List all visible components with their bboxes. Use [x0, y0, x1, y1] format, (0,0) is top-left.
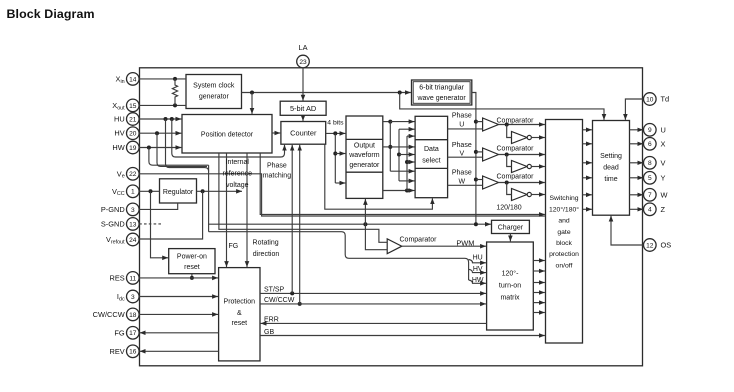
svg-text:120°-: 120°- [502, 269, 519, 277]
wire regulator internal reference voltage output [197, 190, 243, 192]
svg-text:reset: reset [184, 264, 200, 271]
node comparator W output [505, 181, 509, 185]
svg-text:V: V [661, 158, 666, 167]
wire power-on reset to RES line [191, 274, 193, 278]
block U11 setting dead time [593, 121, 630, 216]
svg-text:9: 9 [648, 127, 652, 134]
svg-text:Setting: Setting [600, 153, 622, 160]
svg-text:18: 18 [129, 312, 137, 319]
wire hall HV elbow down [157, 133, 207, 166]
pin 5 Y [644, 172, 666, 185]
wire RES to protection [139, 277, 218, 279]
wire Vrefout to regulator output [139, 191, 202, 239]
wire ERR matrix to protection [261, 322, 487, 324]
node power-on reset junction [190, 276, 194, 280]
node carrier meets charger line [474, 222, 478, 226]
svg-text:turn-on: turn-on [499, 282, 521, 289]
wire P-GND to regulator [139, 203, 178, 209]
wire switching to setting row U [583, 129, 592, 131]
wire tap up to owg bottom [364, 199, 366, 224]
pin 21 HU [114, 113, 139, 126]
wire HU to position detector [139, 118, 181, 120]
node VCC junction [149, 189, 153, 193]
wire owg out2 stub [383, 146, 391, 148]
svg-text:Td: Td [661, 95, 670, 104]
wire counter to data select bottom [325, 144, 433, 209]
wire HU second tap to counter [172, 119, 285, 157]
wire VCC to power-on reset [151, 191, 169, 257]
pin 15 Xout [112, 99, 139, 112]
inverter A2 phase U [512, 132, 532, 144]
wire setting to pin X [630, 143, 644, 145]
svg-text:Counter: Counter [290, 128, 317, 137]
block U14 protection and reset [219, 268, 260, 361]
wire position detector phase to 120/180 bus [260, 153, 545, 214]
node carrier tap V [474, 150, 478, 154]
wire inverter W output to switching [531, 194, 545, 196]
wire switching to setting row V [583, 162, 592, 164]
svg-text:PWM: PWM [456, 238, 474, 247]
wire position detector to counter [272, 132, 280, 134]
wire GB protection to switching [260, 335, 545, 337]
svg-text:15: 15 [129, 103, 137, 110]
svg-text:HV: HV [473, 266, 483, 273]
svg-text:System clock: System clock [193, 82, 235, 89]
wire data select input row 4 [390, 146, 414, 148]
node regulator output [201, 189, 205, 193]
node owg fan 3 [405, 189, 409, 193]
wire carrier to comparator W [476, 179, 483, 181]
label phase matching [263, 162, 292, 179]
svg-text:X: X [661, 139, 666, 148]
wire switching to setting row W [583, 194, 592, 196]
pin 3 P-GND [101, 203, 139, 216]
node comparator V output [505, 153, 509, 157]
svg-text:6: 6 [648, 141, 652, 148]
svg-text:4 bits: 4 bits [327, 119, 344, 126]
svg-text:protection: protection [549, 251, 579, 258]
node owg mid tap [333, 152, 337, 156]
block U6 output waveform generator (3 stacked sections) [346, 116, 383, 198]
block U12 regulator [160, 179, 197, 203]
svg-text:HW: HW [112, 143, 124, 152]
wire carrier to comparator V [476, 151, 483, 153]
wire data select input row 5 [399, 154, 415, 156]
svg-text:1: 1 [131, 189, 135, 196]
svg-text:U: U [459, 122, 464, 129]
pin 12 OS [644, 239, 672, 252]
svg-text:8: 8 [648, 160, 652, 167]
wire hall bus B to matrix [209, 232, 469, 280]
svg-text:Power-on: Power-on [177, 253, 207, 260]
svg-text:time: time [604, 176, 617, 183]
node clock to triangular generator [398, 91, 402, 95]
pin 14 Xin [116, 73, 140, 86]
wire matrix to switching row 5 [533, 302, 545, 304]
node counter output [333, 131, 337, 135]
wire LA to 5-bit AD [302, 68, 304, 101]
svg-text:on/off: on/off [556, 262, 573, 269]
svg-text:select: select [422, 157, 440, 164]
svg-text:Output: Output [354, 143, 375, 150]
svg-text:Phase: Phase [452, 170, 472, 177]
svg-text:Phase: Phase [267, 162, 287, 169]
svg-text:Y: Y [661, 173, 666, 182]
svg-text:V: V [459, 150, 464, 157]
pin 13 S-GND [101, 218, 139, 231]
wire CW/CCW pin to protection [139, 313, 218, 315]
wire CW/CCW up to counter [299, 145, 301, 304]
block U13 power-on reset [169, 249, 215, 274]
svg-text:7: 7 [648, 192, 652, 199]
inverter A6 phase W [512, 189, 532, 201]
svg-text:Charger: Charger [498, 225, 524, 232]
svg-text:HW: HW [472, 277, 484, 284]
wire clock to setting dead time [400, 93, 604, 120]
wire hall HU elbow down [166, 119, 209, 171]
svg-text:20: 20 [129, 131, 137, 138]
wire HV to position detector [139, 132, 181, 134]
wire data select input row 7 [390, 170, 414, 172]
svg-text:HU: HU [473, 255, 483, 262]
wire owg out1 stub [383, 121, 391, 123]
pin 6 X [644, 138, 666, 151]
wire owg fan vertical 3 [406, 136, 408, 190]
svg-text:CW/CCW: CW/CCW [93, 310, 125, 319]
pin 17 FG [114, 327, 139, 340]
pin 23 LA (top) [297, 43, 310, 68]
wire OS pin to setting dead time [611, 216, 644, 245]
wire data select input row 6 [407, 161, 415, 163]
wire hall bus vertical [208, 165, 210, 232]
svg-text:21: 21 [129, 116, 137, 123]
block U10 switching 120/180 and gate block protection on/off [546, 120, 583, 344]
wire data select input row 8 [399, 180, 415, 182]
svg-text:generator: generator [199, 94, 230, 101]
wire switching to setting row Z [583, 208, 592, 210]
svg-text:3: 3 [131, 294, 135, 301]
comparator A3 phase V [483, 146, 535, 161]
block U8 charger [492, 220, 530, 233]
svg-text:matching: matching [263, 173, 292, 180]
wire switching to setting row Y [583, 177, 592, 179]
pin 24 Vrefout [106, 233, 139, 246]
svg-text:FG: FG [229, 243, 239, 250]
wire PWM output to matrix [402, 245, 486, 247]
IC outline [140, 68, 643, 366]
pin 18 CW/CCW [93, 308, 139, 321]
svg-text:Internal: Internal [226, 159, 250, 166]
svg-text:120°/180°: 120°/180° [549, 205, 579, 213]
node clock to position detector [250, 91, 254, 95]
svg-text:wave generator: wave generator [416, 95, 466, 102]
svg-text:and: and [558, 218, 570, 225]
svg-text:6-bit triangular: 6-bit triangular [419, 84, 464, 91]
wire data select input row 3 [407, 135, 415, 137]
wire protection to REV pin [140, 350, 219, 352]
svg-text:13: 13 [129, 221, 137, 228]
wire tap down to PWM comparator minus input [365, 224, 387, 250]
wire tap to inverter V [507, 155, 512, 167]
svg-text:5-bit AD: 5-bit AD [290, 104, 316, 113]
block U4 counter [281, 122, 326, 145]
block U1 system clock generator [186, 75, 242, 109]
wire ST/SP protection to matrix [260, 292, 486, 294]
pin 1 VCC [112, 185, 139, 198]
wire owg fan vertical 1 [389, 122, 391, 172]
wire carrier to comparator U [476, 121, 483, 123]
wire owg fan vertical 2 [398, 129, 400, 181]
wire clock down to position detector [251, 93, 253, 114]
pin 16 REV [109, 345, 139, 358]
svg-text:23: 23 [299, 59, 307, 66]
label internal reference voltage [223, 159, 253, 189]
wire matrix to switching row 4 [533, 292, 545, 294]
wire VCC to regulator [139, 190, 159, 192]
wire data select input row 2 [399, 128, 415, 130]
label phase V [452, 142, 472, 158]
pin 22 Ve [117, 168, 139, 181]
wire Xout to system clock [139, 104, 186, 106]
wire CW/CCW protection to matrix [260, 303, 486, 305]
block U3 5-bit AD [280, 101, 326, 115]
svg-text:Rotating: Rotating [253, 239, 279, 246]
node Xin junction [173, 77, 177, 81]
block U7 data select (3 stacked sections) [415, 116, 448, 197]
svg-text:ERR: ERR [264, 317, 279, 324]
wire position detector to PWM comparator plus input [219, 153, 387, 242]
wire tap to owg middle [335, 153, 345, 155]
svg-text:&: & [237, 310, 242, 317]
comparator A7 PWM [387, 236, 437, 253]
node hall bus owg tap [363, 222, 367, 226]
svg-text:ST/SP: ST/SP [264, 287, 285, 294]
wire hall HW elbow down [149, 148, 209, 166]
wire inverter U output to switching [531, 137, 545, 139]
comparator A5 phase W [483, 174, 535, 189]
svg-text:HV: HV [114, 129, 124, 138]
svg-text:Comparator: Comparator [497, 118, 535, 125]
node HW junction [147, 146, 151, 150]
svg-text:5: 5 [648, 175, 652, 182]
node CW/CCW counter tap [298, 302, 302, 306]
svg-text:LA: LA [298, 43, 307, 52]
svg-text:11: 11 [129, 275, 136, 282]
pin 19 HW [112, 141, 139, 154]
wire comparator W output to switching [499, 182, 545, 184]
svg-text:W: W [458, 179, 465, 186]
node HU junction 2 [170, 117, 174, 121]
wire setting to pin V [630, 162, 644, 164]
node ST/SP counter tap [290, 291, 294, 295]
wire matrix to switching row 3 [533, 282, 545, 284]
block U5 6-bit triangular wave generator (double border) [412, 80, 472, 105]
svg-text:GB: GB [264, 329, 274, 336]
svg-text:120/180: 120/180 [496, 205, 521, 212]
wire S-GND dashed stub [139, 223, 161, 225]
label phase U [452, 113, 472, 129]
node comparator U output [505, 123, 509, 127]
node HV junction [155, 131, 159, 135]
block U2 position detector [182, 115, 272, 154]
wire inverter V output to switching [531, 166, 545, 168]
svg-text:S-GND: S-GND [101, 219, 125, 228]
wire tap to inverter U [507, 125, 512, 138]
pin 11 RES [109, 272, 139, 285]
svg-text:voltage: voltage [226, 182, 249, 189]
wire Td pin to setting dead time [625, 99, 643, 120]
block U9 120-degree turn-on matrix [487, 242, 534, 330]
wire matrix hook HW [469, 280, 486, 283]
wire comparator U output to switching [499, 124, 545, 126]
pin 8 V [644, 157, 666, 170]
wire HW to position detector [139, 147, 181, 149]
wire hall bus A to charger line [209, 223, 491, 225]
svg-text:Data: Data [424, 146, 439, 153]
svg-text:REV: REV [109, 347, 124, 356]
wire data select input row 9 [407, 190, 415, 192]
wire system clock output bus [242, 92, 411, 94]
node carrier tap W [474, 178, 478, 182]
svg-text:Position detector: Position detector [201, 131, 254, 138]
svg-text:reset: reset [232, 320, 248, 327]
wire counter output vertical [334, 133, 336, 183]
resistor R1 oscillator feedback [172, 79, 177, 106]
wire counter to output waveform generator [326, 132, 346, 134]
wire Ve to 120/180 bus [139, 174, 545, 216]
node Xout junction [173, 103, 177, 107]
svg-text:19: 19 [129, 145, 137, 152]
wire Idc to protection [139, 296, 218, 298]
svg-text:dead: dead [603, 165, 619, 172]
svg-text:Comparator: Comparator [400, 236, 438, 243]
wire matrix to switching row 6 [533, 312, 545, 314]
wire owg out3 stub [383, 190, 407, 192]
node carrier tap U [474, 120, 478, 124]
svg-text:Regulator: Regulator [163, 189, 194, 196]
svg-text:matrix: matrix [500, 294, 520, 301]
wire 5-bit AD to counter [302, 115, 304, 121]
pin 7 W [644, 189, 668, 202]
svg-text:24: 24 [129, 237, 137, 244]
svg-text:gate: gate [557, 229, 570, 236]
svg-text:reference: reference [223, 170, 253, 177]
label phase W [452, 170, 472, 186]
node owg fan 1 [388, 120, 392, 124]
wire phase V to comparator [448, 156, 483, 158]
wire protection to FG pin [140, 332, 219, 334]
wire matrix to switching row 2 [533, 270, 545, 272]
wire charger to matrix [509, 234, 511, 242]
wire setting to pin Y [630, 177, 644, 179]
svg-text:16: 16 [129, 349, 137, 356]
pin 10 Td [644, 93, 670, 106]
svg-text:U: U [661, 125, 666, 134]
wire phase U to comparator [448, 128, 483, 130]
wire switching to setting row X [583, 143, 592, 145]
svg-text:Block Diagram: Block Diagram [7, 7, 95, 21]
svg-text:Protection: Protection [224, 299, 256, 306]
pin 4 Z [644, 203, 666, 216]
wire matrix to switching row 1 [533, 260, 545, 262]
wire tap to owg bottom [335, 182, 345, 184]
wire data select input row 1 [390, 121, 414, 123]
node HU junction 1 [164, 117, 168, 121]
inverter A4 phase V [512, 161, 532, 173]
wire ST/SP up to counter [291, 145, 293, 294]
node owg fan 4 [397, 153, 401, 157]
svg-text:4: 4 [648, 207, 652, 214]
svg-text:HU: HU [114, 115, 125, 124]
svg-text:Z: Z [661, 205, 666, 214]
wire matrix hook HV [469, 269, 486, 272]
wire position detector rotating direction down [246, 153, 248, 267]
svg-text:3: 3 [131, 207, 135, 214]
svg-text:Phase: Phase [452, 142, 472, 149]
svg-text:14: 14 [129, 76, 137, 83]
wire Xin to system clock [139, 78, 186, 80]
svg-text:OS: OS [661, 241, 672, 250]
wire setting to pin U [630, 129, 644, 131]
svg-text:17: 17 [129, 330, 137, 337]
svg-text:waveform: waveform [348, 152, 380, 159]
wire triangular generator carrier output [472, 93, 476, 224]
wire setting to pin W [630, 194, 644, 196]
wire matrix hook HU [469, 260, 486, 263]
svg-text:W: W [661, 190, 668, 199]
svg-text:10: 10 [646, 96, 654, 103]
svg-text:generator: generator [349, 162, 380, 169]
comparator A1 phase U [483, 118, 535, 131]
svg-text:Comparator: Comparator [497, 146, 535, 153]
svg-text:12: 12 [646, 242, 654, 249]
svg-text:22: 22 [129, 171, 137, 178]
svg-text:block: block [556, 240, 572, 247]
pin 3 Idc [117, 290, 139, 303]
node owg fan 2 [388, 145, 392, 149]
svg-text:direction: direction [253, 251, 280, 258]
pin 20 HV [114, 127, 139, 140]
svg-text:FG: FG [114, 328, 125, 337]
svg-text:RES: RES [109, 273, 124, 282]
wire tap to inverter W [507, 183, 512, 195]
svg-text:CW/CCW: CW/CCW [264, 297, 295, 304]
svg-text:Phase: Phase [452, 113, 472, 120]
svg-text:Switching: Switching [549, 195, 578, 202]
pin 9 U [644, 124, 666, 137]
svg-text:Comparator: Comparator [497, 174, 535, 181]
wire position detector FG down [226, 153, 228, 267]
svg-text:P-GND: P-GND [101, 205, 125, 214]
wire comparator V output to switching [499, 154, 545, 156]
label rotating direction [253, 239, 280, 258]
wire setting to pin Z [630, 208, 644, 210]
node owg fan 5 [405, 160, 409, 164]
wire phase W to comparator [448, 184, 483, 186]
